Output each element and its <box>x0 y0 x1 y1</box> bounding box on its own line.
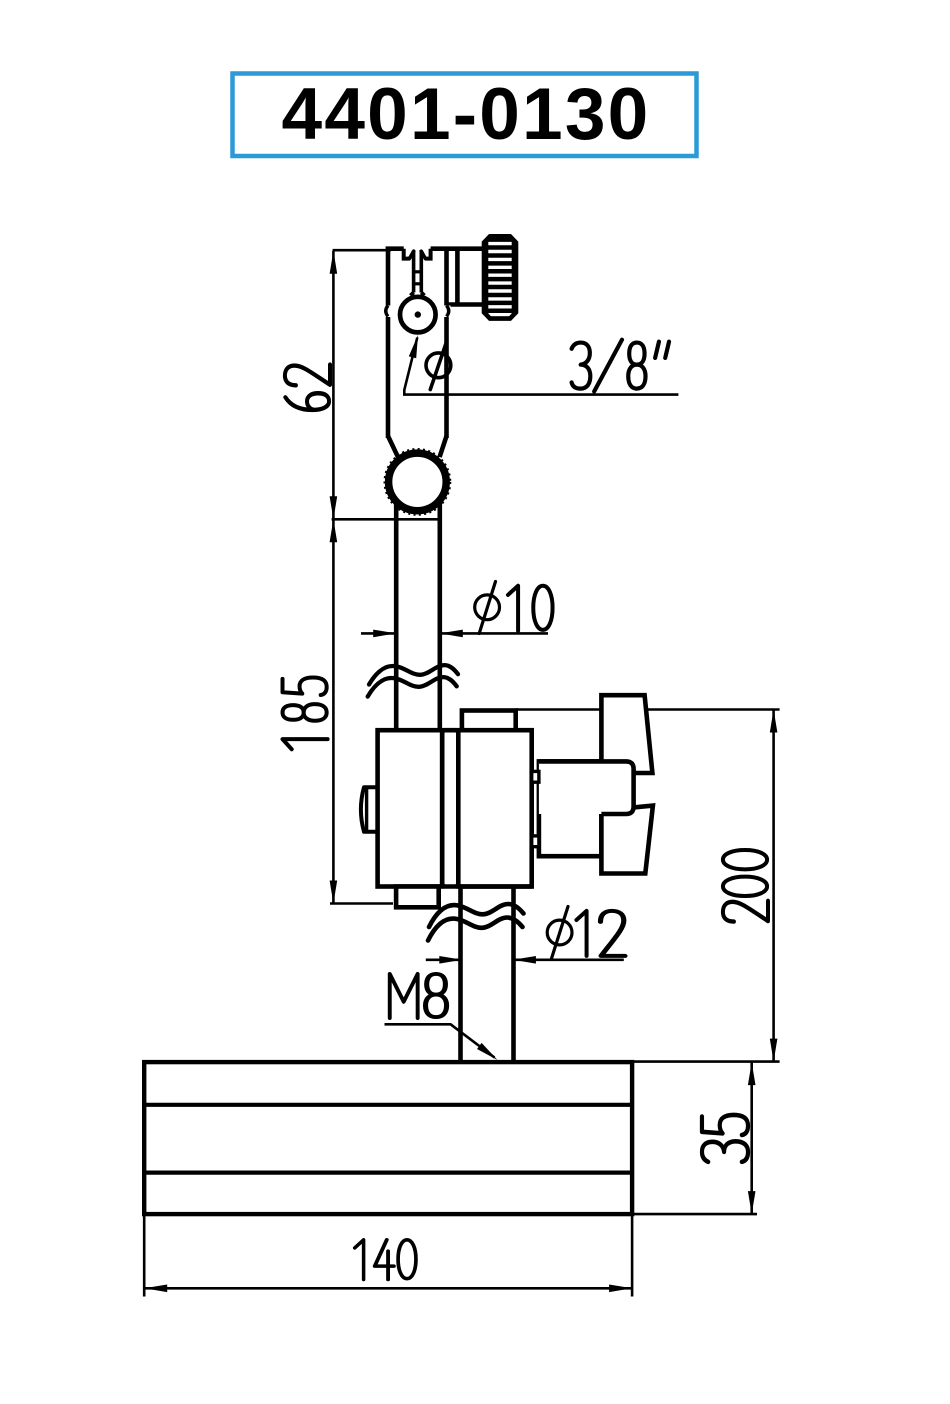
column left edge <box>458 887 463 1062</box>
arrow 35 bottom <box>748 1191 756 1214</box>
ball joint taper left <box>388 436 399 460</box>
svg-text:4401-0130: 4401-0130 <box>282 74 651 155</box>
extension line 200 top right <box>647 708 780 711</box>
label M8 <box>390 974 447 1018</box>
arrow o12 left <box>439 956 462 964</box>
top cap <box>462 711 516 731</box>
label 185 <box>283 677 328 749</box>
pivot circle <box>400 297 436 333</box>
connector tab lower <box>532 836 539 847</box>
extension line base top right <box>632 1060 780 1063</box>
M8 leader <box>385 1024 495 1057</box>
dimension line 185 <box>332 519 335 903</box>
rod left edge <box>394 503 399 730</box>
title box frame <box>233 74 697 157</box>
upper wing <box>601 695 652 773</box>
right edge notch <box>443 306 451 318</box>
dim line o10 left <box>361 632 396 635</box>
arrow 140 right <box>609 1285 632 1293</box>
leader line 3/8 <box>404 338 678 395</box>
dimension line 62 <box>332 251 335 520</box>
dim line o12 right <box>513 958 624 961</box>
extension line base bottom right <box>632 1213 757 1216</box>
dimension line 35 <box>750 1062 753 1214</box>
slot tick 2 <box>412 282 423 285</box>
clamp arm bottom edge <box>447 302 485 307</box>
extension line 140 right <box>631 1214 634 1296</box>
arrow 200 top <box>770 710 778 733</box>
slot left chamfer <box>404 249 410 259</box>
extension line 140 left <box>143 1214 146 1296</box>
diameter symbol 3/8 <box>426 353 451 378</box>
stem flare <box>411 293 425 296</box>
ball joint knurled ring <box>389 453 447 511</box>
label 35 <box>702 1115 748 1162</box>
clamp body left edge <box>386 249 391 438</box>
arrow o12 right <box>513 956 536 964</box>
left thumb knob <box>361 787 378 832</box>
connector tab upper <box>532 771 539 782</box>
clamp body top edge right segment <box>431 246 484 251</box>
clamp body right edge <box>444 249 449 438</box>
bolt shaft rect <box>539 761 602 856</box>
label 62 <box>285 365 330 410</box>
dimension line 200 <box>772 710 775 1062</box>
dimension line 140 <box>144 1287 632 1290</box>
label 10 <box>508 586 553 631</box>
lower wing <box>601 806 653 874</box>
middle strip <box>442 730 458 886</box>
right block <box>458 730 531 886</box>
extension line mid (y=519) <box>332 518 439 521</box>
arrow 62 bottom <box>330 496 338 519</box>
diameter symbol o12 <box>547 920 572 945</box>
bolt head outline <box>539 761 634 814</box>
pivot center dot <box>415 311 421 317</box>
knurled knob <box>484 236 516 318</box>
dim line o10 right <box>440 632 548 635</box>
arrow o10 right <box>440 630 463 638</box>
label 200 <box>723 850 768 922</box>
extension line top (y=250) <box>333 249 391 252</box>
break wave upper 1 <box>369 665 458 684</box>
label 12 <box>576 911 625 956</box>
left edge notch <box>384 306 392 318</box>
label 3/8 inch <box>572 340 669 392</box>
column top edge <box>458 884 531 889</box>
left block <box>378 730 443 886</box>
column right edge <box>511 887 516 1062</box>
base inner line 1 <box>144 1103 632 1107</box>
arrow o10 left <box>373 630 396 638</box>
extension line 200 top left <box>516 708 602 711</box>
break wave lower 2 <box>428 918 523 941</box>
label 140 <box>355 1240 416 1280</box>
arrow 185 bottom <box>330 881 338 904</box>
arrow 200 bottom <box>770 1039 778 1062</box>
leader arrow 3/8 <box>409 335 418 358</box>
break wave lower 1 <box>429 904 524 927</box>
dim line o12 left <box>426 958 463 961</box>
clamp arm divider <box>455 249 460 305</box>
break wave upper 2 <box>368 677 457 697</box>
bottom step left <box>396 887 439 908</box>
M8 arrow <box>477 1043 498 1060</box>
bolt head fill <box>539 761 634 814</box>
diameter symbol o10 <box>475 595 500 620</box>
slot tick 1 <box>412 270 423 273</box>
arrow 35 top <box>748 1062 756 1085</box>
base inner line 2 <box>144 1170 632 1174</box>
arrow 140 left <box>144 1285 167 1293</box>
clamp body top edge left segment <box>386 246 404 251</box>
rod right edge <box>437 503 442 730</box>
slot right chamfer <box>425 249 431 259</box>
ball joint taper right <box>440 436 447 457</box>
arrow 62 top <box>330 251 338 274</box>
arrow 185 top <box>330 519 338 542</box>
extension line 185 bottom (y=903) <box>330 902 393 905</box>
base outline <box>144 1062 632 1214</box>
